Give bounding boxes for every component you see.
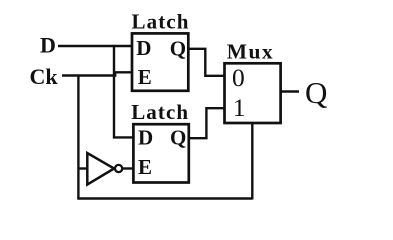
latch U1 box: [132, 33, 188, 90]
wire latch1 Q to mux 0: [188, 49, 224, 76]
wire mux select vertical: [251, 123, 253, 200]
wire inverter input: [78, 167, 87, 169]
svg-text:D: D: [40, 32, 56, 57]
svg-text:0: 0: [232, 63, 245, 92]
svg-text:E: E: [138, 155, 152, 179]
svg-text:D: D: [138, 125, 153, 149]
wire Ck branch down: [77, 75, 79, 199]
svg-text:Mux: Mux: [227, 40, 274, 64]
wire inverter output to E: [122, 167, 133, 169]
svg-text:1: 1: [233, 93, 246, 122]
wire D branch to latch2 D: [114, 45, 133, 137]
inverter U4: [87, 153, 114, 185]
svg-text:Latch: Latch: [131, 100, 189, 124]
svg-text:E: E: [138, 65, 152, 89]
svg-text:D: D: [136, 36, 151, 60]
inverter U4 bubble: [115, 165, 122, 172]
wire latch2 Q to mux 1: [189, 108, 225, 138]
latch U2 box: [133, 124, 188, 182]
wire D input: [58, 45, 133, 47]
svg-text:Q: Q: [305, 75, 327, 110]
wire feedback bottom: [77, 197, 252, 199]
wire Ck input: [62, 72, 133, 75]
svg-text:Latch: Latch: [132, 10, 190, 34]
svg-text:Q: Q: [170, 36, 186, 60]
mux U3 box: [225, 63, 281, 123]
svg-text:Ck: Ck: [30, 64, 59, 89]
svg-text:Q: Q: [170, 126, 186, 150]
wire mux output: [281, 90, 299, 92]
